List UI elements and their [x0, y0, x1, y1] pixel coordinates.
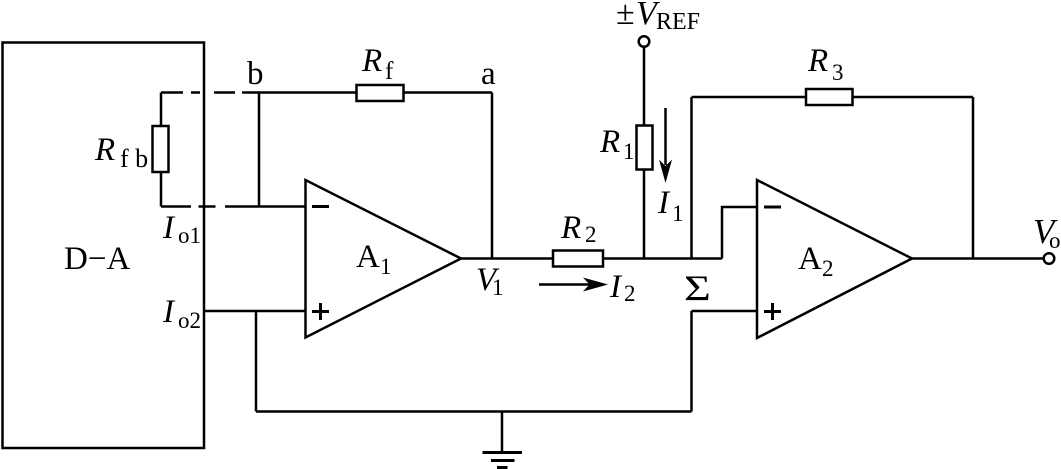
svg-text:R: R [560, 210, 581, 246]
ground bar 1 [483, 451, 523, 454]
arrowhead I1 down [659, 160, 672, 184]
arrowhead I2 right [583, 278, 608, 292]
resistor R1 body [637, 126, 653, 170]
wire bottom dashed from Rfb to A1 inverting input [161, 205, 306, 208]
svg-text:I: I [609, 269, 623, 305]
wire node b vertical [258, 93, 261, 207]
svg-text:o1: o1 [178, 223, 201, 248]
svg-text:D−A: D−A [64, 241, 130, 277]
svg-text:2: 2 [585, 222, 597, 247]
wire R2 to summing node [603, 257, 722, 260]
resistor R2 body [553, 251, 603, 267]
svg-text:I: I [657, 185, 671, 221]
svg-text:±: ± [616, 0, 635, 32]
svg-text:2: 2 [624, 281, 636, 306]
svg-text:I: I [162, 294, 176, 330]
svg-text:f: f [385, 58, 394, 85]
svg-text:I: I [162, 210, 176, 246]
wire Io2 from D-A box to A1 non-inverting input [204, 310, 306, 313]
wire ground rail up to A2 non-inverting branch [690, 311, 693, 412]
svg-text:R: R [807, 43, 828, 79]
svg-text:Σ: Σ [684, 268, 711, 308]
svg-text:1: 1 [492, 275, 504, 300]
resistor R3 body [806, 89, 853, 105]
svg-text:1: 1 [623, 139, 635, 164]
D-A converter box [3, 43, 205, 449]
op-amp A1 minus sign [312, 205, 329, 208]
svg-text:f b: f b [120, 144, 148, 173]
svg-text:3: 3 [832, 60, 844, 85]
svg-text:2: 2 [822, 256, 834, 281]
wire node a vertical down to A1 output [491, 93, 494, 259]
svg-text:o: o [1049, 228, 1061, 253]
svg-text:REF: REF [656, 9, 700, 35]
ground stem [501, 412, 504, 452]
wire A2 output to Vo [912, 257, 1044, 260]
wire junction down from Io2 wire to bottom rail [255, 311, 258, 412]
wire VREF to R1 [643, 47, 646, 126]
wire bottom rail [256, 410, 692, 413]
wire summing node step up to A2 inverting input [722, 207, 757, 259]
terminal VREF circle [639, 36, 650, 47]
op-amp A2 minus sign [764, 206, 781, 209]
wire R3 right vertical down to output [972, 97, 975, 259]
op-amp A1 plus sign [312, 303, 329, 320]
op-amp A1 triangle [306, 180, 462, 338]
svg-text:o2: o2 [178, 308, 201, 333]
resistor Rfb body [153, 126, 169, 172]
wire Rf to node a [404, 91, 493, 94]
svg-text:A: A [356, 239, 380, 275]
svg-text:b: b [247, 56, 264, 92]
svg-text:R: R [361, 43, 382, 79]
ground bar 2 [491, 459, 515, 462]
wire Rfb left vertical [160, 93, 163, 207]
resistor Rf body [357, 85, 404, 101]
wire R3 top right [853, 96, 974, 99]
ground bar 3 [497, 466, 508, 469]
arrow I1 line [664, 108, 667, 165]
wire b to Rf [259, 91, 357, 94]
terminal Vo circle [1044, 253, 1055, 264]
svg-text:R: R [94, 132, 115, 168]
wire A2 non-inverting input [692, 310, 758, 313]
wire R3 left vertical to summing node [690, 97, 693, 259]
wire A1 output to R2 [461, 257, 553, 260]
svg-text:R: R [599, 124, 620, 160]
wire R3 top left [692, 96, 807, 99]
svg-text:1: 1 [672, 201, 684, 226]
svg-text:1: 1 [380, 254, 392, 279]
op-amp A2 plus sign [764, 303, 781, 320]
arrow I2 line [539, 283, 590, 286]
op-amp A2 triangle [757, 180, 912, 338]
svg-text:a: a [481, 56, 496, 92]
wire top dashed from Rfb to node b [161, 91, 259, 94]
svg-text:A: A [798, 241, 822, 277]
wire R1 to summing node [643, 170, 646, 259]
